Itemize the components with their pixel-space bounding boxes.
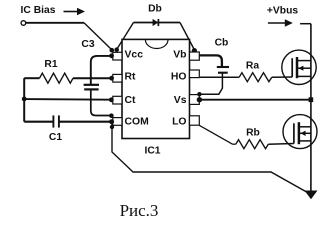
resistor Rb bbox=[236, 140, 268, 149]
transistor Q2 (lower MOSFET) bbox=[283, 115, 317, 149]
wire COM to ground rail bbox=[112, 122, 308, 193]
node COM pin dot bbox=[109, 119, 114, 124]
svg-text:+Vbus: +Vbus bbox=[267, 6, 298, 17]
pin box Ct bbox=[113, 96, 122, 104]
node half-bridge junction bbox=[309, 97, 314, 102]
svg-text:Ra: Ra bbox=[246, 61, 259, 72]
wire IC Bias diagonal to Vcc node bbox=[84, 23, 112, 50]
wire drain-source vertical bbox=[310, 24, 312, 196]
node Vb junction bbox=[192, 48, 197, 53]
svg-text:Vcc: Vcc bbox=[125, 50, 144, 61]
node COM lower dot bbox=[110, 125, 114, 129]
svg-text:Cb: Cb bbox=[215, 38, 229, 49]
resistor R1 bbox=[24, 73, 113, 83]
capacitor Cb bbox=[217, 67, 229, 73]
node left rail junction bbox=[22, 97, 27, 102]
svg-text:Ct: Ct bbox=[125, 95, 137, 106]
wire Rb to Q2 gate bbox=[233, 143, 236, 145]
capacitor C1 bbox=[53, 115, 59, 127]
wire Ct line bbox=[24, 98, 111, 101]
svg-text:HO: HO bbox=[171, 72, 187, 83]
transistor Q1 (upper MOSFET) bbox=[282, 50, 316, 84]
arrow after IC Bias bbox=[64, 8, 86, 16]
svg-text:Рис.3: Рис.3 bbox=[120, 201, 159, 220]
wire Db anode diagonal bbox=[117, 23, 134, 50]
wire C3 bottom to COM node bbox=[91, 89, 111, 115]
pin box LO bbox=[190, 116, 200, 125]
op-amp U1 body (IC1) bbox=[122, 39, 190, 138]
svg-text:Db: Db bbox=[148, 4, 162, 15]
wire Db top bbox=[134, 22, 181, 24]
pin box Rt bbox=[113, 74, 122, 82]
pin box HO bbox=[190, 70, 200, 78]
wire HO to Ra bbox=[200, 76, 239, 78]
node Vcc junction dots bbox=[110, 48, 115, 53]
svg-text:IC1: IC1 bbox=[144, 146, 160, 157]
svg-text:C1: C1 bbox=[49, 132, 62, 143]
terminal (IC Bias input) bbox=[21, 21, 26, 26]
wire +Vbus corner bbox=[300, 23, 311, 25]
wire Ra to Q1 gate bbox=[272, 76, 292, 78]
capacitor C3 bbox=[84, 85, 99, 90]
svg-text:Rb: Rb bbox=[246, 128, 260, 139]
wire Cb bottom to Vs bbox=[200, 73, 223, 95]
resistor Ra bbox=[239, 73, 272, 82]
wire LO to Rb diagonal bbox=[199, 125, 232, 144]
svg-text:Vb: Vb bbox=[173, 50, 186, 61]
arrow +Vbus bbox=[268, 19, 293, 27]
svg-text:R1: R1 bbox=[44, 59, 57, 70]
svg-text:COM: COM bbox=[125, 117, 149, 128]
wire C1 left segment bbox=[24, 121, 53, 123]
wire Vcc pin to C3 top bbox=[91, 56, 113, 85]
diode Db bbox=[153, 19, 159, 26]
node Vcc pin dot bbox=[109, 53, 114, 58]
svg-text:Vs: Vs bbox=[174, 95, 187, 106]
pin box Vs bbox=[190, 95, 200, 105]
node Rt pin dot bbox=[109, 76, 114, 81]
wire Vs line bbox=[199, 99, 311, 101]
ground bbox=[305, 191, 318, 200]
pin box COM bbox=[113, 118, 122, 126]
wire Db cathode diagonal to Vb bbox=[180, 23, 195, 51]
wire C1 right segment to COM bbox=[60, 121, 113, 123]
pin box Vb bbox=[190, 52, 200, 60]
wire IC Bias horizontal bbox=[26, 22, 84, 24]
wire Vb bootstrap to Cb bbox=[199, 55, 222, 66]
svg-text:C3: C3 bbox=[81, 39, 94, 50]
pin box Vcc bbox=[113, 52, 122, 60]
svg-text:Rt: Rt bbox=[125, 72, 137, 83]
node Vs pin dot bbox=[197, 97, 202, 102]
node Ct pin dot bbox=[109, 97, 114, 102]
node Vs upper dot bbox=[197, 92, 201, 96]
wire left rail bbox=[23, 78, 25, 122]
svg-text:LO: LO bbox=[172, 117, 186, 128]
svg-text:IC Bias: IC Bias bbox=[21, 5, 56, 16]
IC notch bbox=[145, 40, 168, 49]
node C3/COM dot bbox=[109, 113, 114, 118]
